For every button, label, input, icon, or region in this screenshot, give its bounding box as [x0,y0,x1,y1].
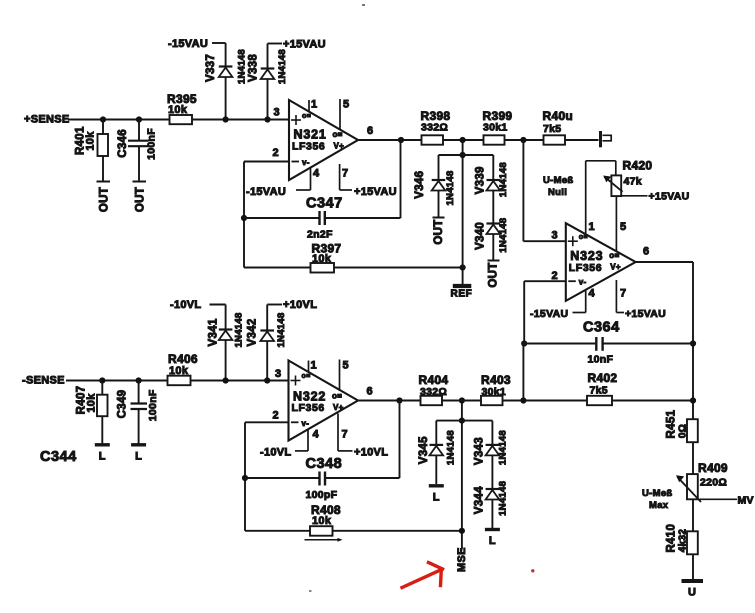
potentiometer R420 [603,159,652,197]
diode V344 [473,481,508,528]
wire bottom output row [422,400,694,402]
wire pin2 N322 [245,421,289,423]
ground L under V344 [485,530,500,548]
wire C364 to bottom row [522,344,524,401]
svg-text:L: L [433,491,440,503]
svg-text:R402: R402 [588,371,618,385]
scan speck bottom [309,590,312,592]
pin 1 stub N323 to R420 [586,161,616,235]
resistor R451 [666,409,698,442]
svg-text:10k: 10k [85,393,97,413]
wire N322 feedback left vertical [244,422,246,531]
svg-text:2n2F: 2n2F [307,229,333,241]
svg-text:R409: R409 [698,461,728,475]
svg-text:1N4148: 1N4148 [498,218,509,253]
power +10VL [267,299,317,311]
resistor R406 [168,352,198,385]
svg-text:N323: N323 [570,249,603,263]
svg-text:1N4148: 1N4148 [498,430,509,465]
svg-text:OUT: OUT [99,187,111,212]
svg-text:V+: V+ [610,263,621,272]
svg-text:7: 7 [620,288,626,300]
resistor R397 [244,242,463,273]
svg-text:R40u: R40u [543,109,574,123]
diode V345 [418,421,457,484]
svg-text:1N4148: 1N4148 [236,49,247,84]
wire clamp branch [439,154,494,156]
svg-text:V339: V339 [475,166,487,194]
svg-text:2: 2 [273,147,279,159]
annotation red arrow [402,563,443,588]
svg-text:L: L [135,450,142,462]
junction node V341 [223,377,229,383]
diode V341 [208,305,245,381]
wire clamp branch bottom [436,420,492,422]
svg-text:6: 6 [643,246,649,258]
ground U bottom [682,581,704,599]
junction node R407 tap [99,377,105,383]
pin 1 stub N321 [309,99,317,112]
svg-text:+15VAU: +15VAU [625,308,666,320]
wire top output row [422,139,599,141]
svg-text:V342: V342 [247,318,259,346]
svg-text:V346: V346 [414,171,426,199]
scan speck top [362,4,365,6]
diode V342 [247,305,287,381]
svg-text:7k5: 7k5 [543,123,561,135]
svg-text:V341: V341 [208,318,220,346]
svg-text:OUT: OUT [488,262,500,287]
svg-text:30k1: 30k1 [482,386,507,398]
capacitor C349 [116,381,159,444]
resistor R40u [543,109,574,145]
power +15VAU R420 wiper [649,191,690,203]
pin 5 stub N321 [340,99,349,130]
wire pin2 N323 [524,281,566,343]
svg-text:1N4148: 1N4148 [233,312,244,347]
power +15VAU top [268,39,326,51]
svg-text:U-Meß: U-Meß [642,488,673,499]
svg-text:220Ω: 220Ω [700,477,727,489]
junction node C349 tap [136,377,142,383]
svg-text:V344: V344 [473,486,485,514]
power -15VAU pin4 N321 [246,186,286,198]
wire -SENSE main horizontal [66,380,289,382]
node OUT under R401 [99,187,111,212]
svg-text:-15VAU: -15VAU [246,186,286,198]
svg-text:3: 3 [274,107,280,119]
junction node V338 [264,116,270,122]
svg-text:R403: R403 [481,373,511,387]
svg-text:+15VAU: +15VAU [354,186,397,198]
pin 1 stub N322 [309,360,317,373]
wire MSE vertical [461,401,463,550]
svg-text:V+: V+ [333,403,344,412]
power +15VAU pin7 N323 [625,308,666,320]
svg-text:o≡: o≡ [302,373,311,380]
svg-text:4: 4 [313,168,320,180]
svg-text:1N4148: 1N4148 [276,312,287,347]
svg-text:3: 3 [552,230,558,242]
svg-text:10k: 10k [312,515,332,527]
diode V338 [248,44,289,120]
svg-text:V345: V345 [418,436,430,464]
capacitor C364 [524,320,693,366]
svg-text:L: L [99,450,106,462]
junction node output column [690,397,696,403]
svg-text:5: 5 [343,360,349,372]
svg-text:o≡: o≡ [579,234,588,241]
svg-text:REF: REF [451,289,473,300]
pin 2 label N321 [273,147,279,159]
svg-text:6: 6 [367,125,373,137]
svg-text:-15VAU: -15VAU [168,38,208,50]
pin 7 stub N322 [338,414,353,451]
node MV label [738,495,754,507]
junction node R398-R399 [460,137,466,143]
wire N321 output [358,125,422,140]
wire N322 output [358,386,422,401]
svg-text:LF356: LF356 [292,402,325,414]
svg-text:1N4148: 1N4148 [498,481,509,516]
power +15VAU pin7 N321 [354,186,397,198]
node C344 label [40,449,77,465]
svg-text:-SENSE: -SENSE [22,375,65,387]
pin 3 label N322 [275,368,281,380]
pin 4 stub N323 [573,288,596,313]
svg-text:R420: R420 [623,159,653,173]
resistor R402 [587,371,617,405]
resistor R399 [483,109,513,145]
svg-text:-15VAU: -15VAU [530,308,568,320]
svg-text:-10VL: -10VL [170,299,201,311]
svg-text:10k: 10k [168,104,188,116]
svg-text:30k1: 30k1 [483,122,508,134]
node REF [451,268,473,300]
pin 2 label N323 [552,270,558,282]
junction node REF tap [460,264,466,270]
svg-text:V343: V343 [473,437,485,465]
junction node N322 out / C348 [396,397,402,403]
svg-text:7k5: 7k5 [590,385,608,397]
svg-text:V+: V+ [334,142,345,151]
pin 7 stub N323 [616,280,626,313]
junction node R401 tap [100,116,106,122]
node MSE label [456,547,468,572]
junction node R399-R40u [520,137,526,143]
svg-text:332Ω: 332Ω [420,386,447,398]
svg-text:-10VL: -10VL [260,447,291,459]
junction node C346 tap [136,116,142,122]
junction node R404-R403 [459,397,465,403]
ground L under R407 [95,445,110,463]
svg-text:LF356: LF356 [292,141,325,153]
node -SENSE input label [22,375,65,387]
svg-text:o≡: o≡ [333,130,343,139]
pin 3 label N323 [552,230,558,242]
op-amp U N323 triangle [566,223,636,301]
pin 5 stub N323 to R420 [616,196,626,251]
svg-text:7: 7 [342,429,348,441]
diode V337 [205,43,247,120]
svg-text:4k32: 4k32 [678,529,689,553]
junction node N321 out / C347 [398,137,404,143]
wire N321 feedback left vertical [243,162,245,268]
svg-text:2: 2 [552,270,558,282]
junction node feedback C347 row [241,215,247,221]
svg-text:4: 4 [313,429,320,441]
pin 7 stub N321 [340,164,352,190]
svg-text:OUT: OUT [134,187,146,212]
svg-text:v-: v- [302,158,310,167]
svg-text:MV: MV [738,495,754,507]
svg-text:+SENSE: +SENSE [24,114,70,126]
pin 4 stub N322 [295,429,320,451]
svg-text:C349: C349 [116,390,128,419]
capacitor C346 [117,120,158,182]
junction node R403-R402 [520,397,526,403]
svg-text:C344: C344 [40,449,77,465]
junction node C364 right [690,340,696,346]
svg-text:V337: V337 [205,54,217,82]
svg-text:R404: R404 [419,373,449,387]
power -15VAU pin4 N323 [530,308,568,320]
svg-text:Null: Null [548,187,567,198]
resistor R395 [167,92,197,124]
svg-text:U: U [688,587,696,599]
wire R399 junction down to N323 pin3 [523,140,565,241]
junction node C364 left [521,340,527,346]
node U-Mess Null label [543,175,574,198]
svg-text:4: 4 [589,288,596,300]
svg-text:1: 1 [589,221,595,233]
power +10VL pin7 N322 [354,447,388,459]
capacitor output terminal symbol [601,131,612,147]
pin 5 stub N322 [340,360,349,392]
resistor R403 [481,373,511,405]
resistor R398 [421,109,451,145]
svg-text:47k: 47k [624,176,642,188]
svg-text:LF356: LF356 [569,262,602,274]
svg-text:v-: v- [579,278,587,287]
wire +SENSE main horizontal [68,119,289,121]
svg-text:OUT: OUT [433,219,445,244]
pin 4 stub N321 [296,168,320,191]
svg-text:10k: 10k [84,131,96,151]
svg-text:v-: v- [302,419,310,428]
diode V340 [475,218,509,261]
resistor R407 [76,381,108,444]
svg-text:Max: Max [649,500,669,511]
op-amp U N322 triangle [289,361,359,441]
op-amp U N321 triangle [289,100,358,180]
svg-text:C348: C348 [306,456,343,472]
resistor R410 [666,524,698,554]
svg-text:N321: N321 [294,128,327,142]
svg-text:5: 5 [620,221,626,233]
wire REF vertical [462,140,464,268]
svg-text:MSE: MSE [456,547,468,572]
svg-text:C346: C346 [117,129,129,158]
node U-Mess Max label [642,488,673,511]
svg-text:5: 5 [343,99,349,111]
node OUT under C346 [134,187,146,212]
resistor R408 [245,503,462,542]
diode V346 [414,155,456,218]
svg-text:10nF: 10nF [588,354,614,366]
junction node V337 [223,116,229,122]
pin 3 label N321 [274,107,280,119]
svg-text:7: 7 [342,168,348,180]
svg-text:U-Meß: U-Meß [543,175,574,186]
pin 2 label N322 [273,410,279,422]
wire pin2 N321 [244,161,289,163]
junction node V342 [264,377,270,383]
capacitor C347 [244,140,401,241]
junction node clamp branch bottom [459,418,465,424]
svg-text:1N4148: 1N4148 [445,170,456,205]
resistor R404 [419,373,449,405]
node OUT under V340 [488,262,500,287]
capacitor C348 [245,401,400,502]
svg-text:100nF: 100nF [146,128,158,160]
resistor R401 [75,120,110,182]
svg-text:1N4148: 1N4148 [498,162,509,197]
svg-text:100nF: 100nF [147,389,159,421]
power -15VAU top [168,38,226,50]
junction node R408 right [459,528,465,534]
ground L under V345 [429,486,444,504]
svg-text:o≡: o≡ [302,113,311,120]
power -10VL [170,299,226,311]
svg-text:L: L [489,535,496,547]
svg-text:o≡: o≡ [609,251,619,260]
svg-text:+10VL: +10VL [283,299,317,311]
svg-text:o≡: o≡ [332,392,342,401]
svg-text:3: 3 [275,368,281,380]
svg-text:332Ω: 332Ω [421,122,448,134]
potentiometer R409 [676,461,737,502]
svg-text:R451: R451 [666,409,678,438]
wire N323 output [636,246,693,263]
junction node clamp branch top [460,152,466,158]
annotation red dot [531,569,534,572]
svg-text:V340: V340 [475,222,487,250]
ground L under C349 [131,445,146,463]
svg-text:0Ω: 0Ω [678,424,689,438]
svg-text:R406: R406 [168,352,198,366]
power -10VL pin4 N322 [260,447,291,459]
svg-text:C364: C364 [583,320,620,336]
svg-text:1: 1 [311,360,317,372]
svg-text:C347: C347 [306,196,343,212]
svg-text:10k: 10k [169,365,189,377]
diode V343 [473,421,508,489]
svg-text:2: 2 [273,410,279,422]
node +SENSE input label [24,114,70,126]
node OUT under V346 [433,219,445,244]
svg-text:V338: V338 [248,54,260,82]
diode V339 [475,155,509,223]
svg-text:6: 6 [367,386,373,398]
svg-text:+15VAU: +15VAU [649,191,690,203]
wire N323 output vertical [692,262,694,580]
svg-text:+15VAU: +15VAU [283,39,326,51]
svg-text:100pF: 100pF [306,489,338,501]
svg-text:R410: R410 [666,524,678,553]
svg-text:+10VL: +10VL [354,447,388,459]
svg-text:10k: 10k [312,253,332,265]
svg-text:1N4148: 1N4148 [445,430,456,465]
svg-text:1N4148: 1N4148 [277,49,288,84]
svg-text:1: 1 [311,99,317,111]
junction node feedback C348 row [242,475,248,481]
